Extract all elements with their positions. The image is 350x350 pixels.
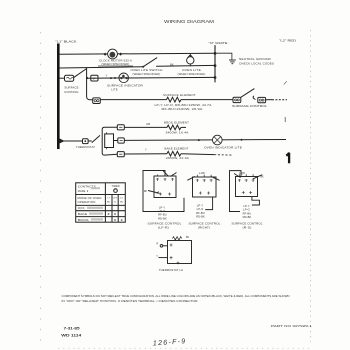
svg-text:THERMOSTAT: THERMOSTAT <box>76 145 95 149</box>
svg-text:TIMED: TIMED <box>111 185 119 188</box>
svg-text:X: X <box>114 218 116 222</box>
svg-text:LP-Y: LP-Y <box>159 205 165 209</box>
svg-text:BROIL: BROIL <box>78 219 90 222</box>
svg-text:RD-BK: RD-BK <box>243 215 252 219</box>
svg-text:(R-S): (R-S) <box>243 225 252 229</box>
svg-text:THERMOSTAT LH: THERMOSTAT LH <box>159 268 183 272</box>
svg-text:3400W, 16.4A: 3400W, 16.4A <box>166 131 189 135</box>
svg-text:"L1" BLACK: "L1" BLACK <box>56 40 77 44</box>
svg-text:SURFACE CONTROL: SURFACE CONTROL <box>189 221 222 225</box>
svg-text:LTE: LTE <box>113 197 118 199</box>
svg-text:BAKE: BAKE <box>78 213 88 216</box>
svg-text:WD 1114: WD 1114 <box>61 334 81 338</box>
svg-text:BROIL ELEMENT: BROIL ELEMENT <box>164 121 189 125</box>
svg-text:LITE: LITE <box>111 87 118 91</box>
svg-text:SURFACE CONTROL: SURFACE CONTROL <box>232 104 268 108</box>
svg-text:R: R <box>156 243 158 246</box>
svg-text:L-QR: L-QR <box>239 172 245 175</box>
svg-text:IN "OFF" OR "RELAXED" POSITION: IN "OFF" OR "RELAXED" POSITION. O DENOTE… <box>62 299 198 303</box>
svg-text:OFF: OFF <box>78 207 85 210</box>
svg-text:BK: BK <box>186 236 190 239</box>
svg-text:Y: Y <box>145 148 147 152</box>
svg-text:COMPONENT SYMBOLS DO NOT REFLE: COMPONENT SYMBOLS DO NOT REFLECT TRUE CO… <box>62 294 290 298</box>
svg-text:LP-O: LP-O <box>197 207 204 211</box>
svg-text:RF-BU: RF-BU <box>158 213 167 217</box>
svg-text:RF-BU: RF-BU <box>196 211 205 215</box>
svg-text:SURFACE CONTROL: SURFACE CONTROL <box>232 221 264 225</box>
svg-text:LP-Y: LP-Y <box>197 203 203 207</box>
svg-text:RD-BK: RD-BK <box>196 215 205 219</box>
svg-text:LP-O: LP-O <box>243 208 250 212</box>
svg-text:"L2" RED: "L2" RED <box>279 39 296 43</box>
svg-text:BAKE ELEMENT: BAKE ELEMENT <box>165 147 189 151</box>
svg-text:LP-Y: LP-Y <box>243 204 249 208</box>
svg-text:X: X <box>114 212 116 216</box>
svg-text:BK: BK <box>261 176 265 179</box>
svg-text:7-31-85: 7-31-85 <box>64 327 80 331</box>
svg-text:BK: BK <box>107 202 111 204</box>
svg-text:(LF-R): (LF-R) <box>158 225 169 229</box>
svg-text:RF-BU=2100W, 26.9A: RF-BU=2100W, 26.9A <box>162 107 203 111</box>
svg-text:CHECK LOCAL CODES: CHECK LOCAL CODES <box>239 61 274 65</box>
svg-text:(WHEN SPECIFIED): (WHEN SPECIFIED) <box>133 72 161 76</box>
svg-text:(WHEN SPECIFIED): (WHEN SPECIFIED) <box>102 62 130 66</box>
svg-text:BU: BU <box>120 202 124 204</box>
svg-text:(WHEN SPECIFIED): (WHEN SPECIFIED) <box>178 72 206 76</box>
svg-text:HB: HB <box>146 122 150 126</box>
svg-text:OVEN INDICATOR LITE: OVEN INDICATOR LITE <box>204 145 242 149</box>
svg-text:Y: Y <box>106 74 108 78</box>
svg-text:SURFACE ELEMENT: SURFACE ELEMENT <box>163 93 196 97</box>
svg-text:(RIGHT): (RIGHT) <box>198 225 210 229</box>
svg-text:RF: RF <box>144 190 148 193</box>
svg-text:CONTROL: CONTROL <box>64 90 79 94</box>
svg-text:OPERATION: OPERATION <box>78 201 96 204</box>
svg-text:PART NO 327929-1: PART NO 327929-1 <box>271 324 313 328</box>
svg-text:"N" WHITE: "N" WHITE <box>209 41 228 45</box>
svg-text:LP-Y, LP-O, RD-BK=1250W, 44.7A: LP-Y, LP-O, RD-BK=1250W, 44.7A <box>155 103 212 107</box>
svg-text:RF-BU: RF-BU <box>243 211 252 215</box>
svg-text:RD-BK: RD-BK <box>158 216 167 220</box>
svg-text:SURFACE CONTROL: SURFACE CONTROL <box>148 221 183 225</box>
svg-text:X: X <box>108 212 110 216</box>
svg-text:L-RR: L-RR <box>199 172 205 175</box>
svg-text:MADE ▼: MADE ▼ <box>78 190 89 193</box>
svg-text:WIRING DIAGRAM: WIRING DIAGRAM <box>164 19 215 24</box>
svg-text:LP-O: LP-O <box>159 209 166 213</box>
svg-text:X: X <box>121 218 123 222</box>
svg-text:LO: LO <box>120 197 123 199</box>
svg-text:BK: BK <box>170 63 174 67</box>
svg-text:MODE OF OVEN: MODE OF OVEN <box>78 197 102 200</box>
svg-text:2650W, 22.3A: 2650W, 22.3A <box>166 156 189 160</box>
